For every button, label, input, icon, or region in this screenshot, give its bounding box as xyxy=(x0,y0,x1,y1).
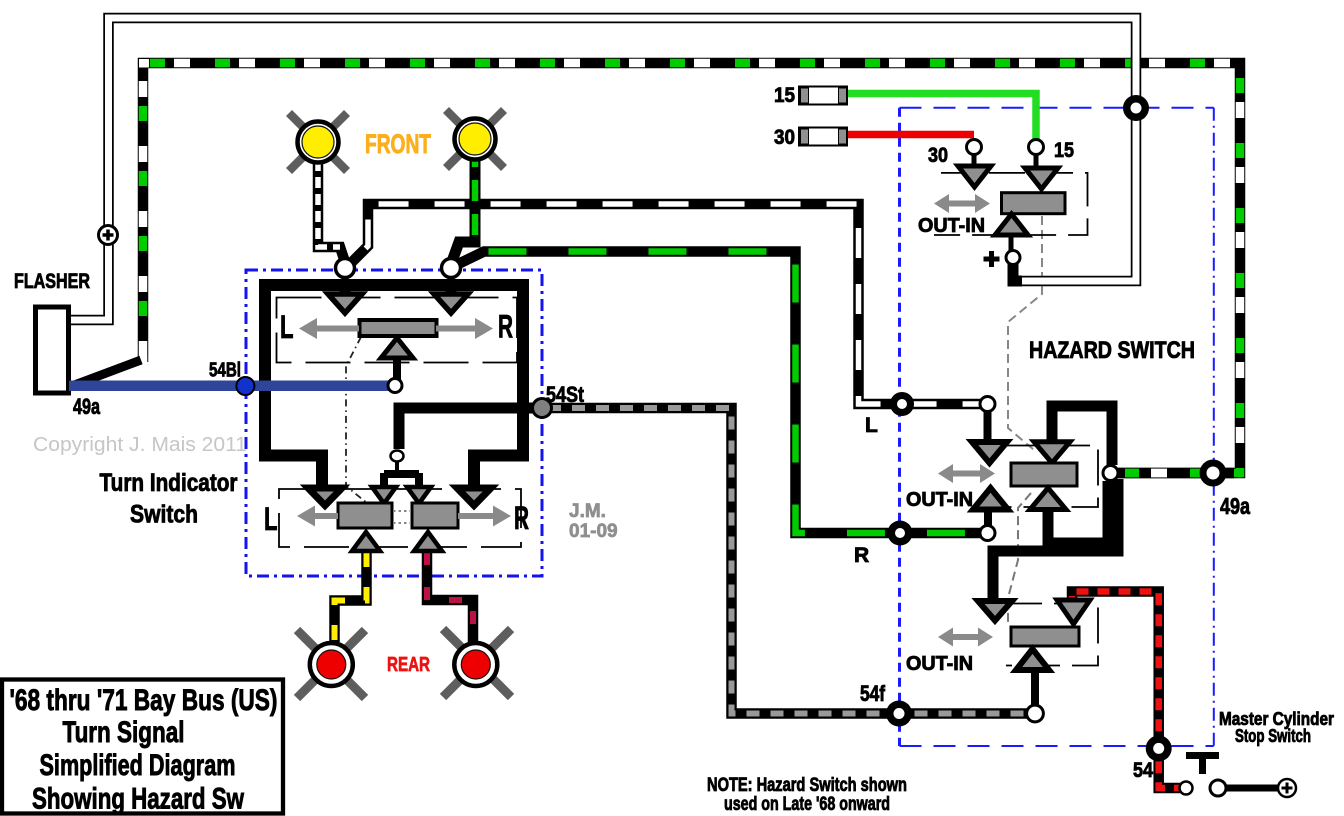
svg-text:Switch: Switch xyxy=(130,501,198,529)
svg-text:OUT-IN: OUT-IN xyxy=(906,653,973,675)
svg-text:R: R xyxy=(498,309,513,345)
svg-text:01-09: 01-09 xyxy=(569,521,618,542)
svg-text:Turn Indicator: Turn Indicator xyxy=(100,469,238,497)
svg-text:L: L xyxy=(264,501,278,537)
svg-text:Simplified Diagram: Simplified Diagram xyxy=(40,749,236,782)
svg-text:15: 15 xyxy=(774,84,795,107)
svg-text:30: 30 xyxy=(928,144,948,167)
svg-text:49a: 49a xyxy=(1220,493,1250,519)
svg-text:FRONT: FRONT xyxy=(365,129,431,159)
svg-text:Stop Switch: Stop Switch xyxy=(1235,726,1311,746)
svg-text:HAZARD SWITCH: HAZARD SWITCH xyxy=(1029,337,1195,364)
svg-text:used on Late '68 onward: used on Late '68 onward xyxy=(724,794,890,815)
svg-text:FLASHER: FLASHER xyxy=(14,270,90,293)
svg-text:NOTE: Hazard Switch shown: NOTE: Hazard Switch shown xyxy=(707,775,907,796)
svg-text:Showing Hazard Sw: Showing Hazard Sw xyxy=(32,783,244,816)
svg-text:49a: 49a xyxy=(73,394,101,419)
svg-text:'68 thru '71 Bay Bus (US): '68 thru '71 Bay Bus (US) xyxy=(10,684,278,717)
svg-text:54: 54 xyxy=(1133,759,1153,782)
svg-text:30: 30 xyxy=(774,126,795,149)
svg-text:REAR: REAR xyxy=(387,654,430,676)
svg-text:OUT-IN: OUT-IN xyxy=(906,489,973,511)
svg-text:54Bl: 54Bl xyxy=(209,360,241,382)
svg-text:R: R xyxy=(514,500,529,536)
svg-text:15: 15 xyxy=(1054,139,1074,162)
svg-text:54f: 54f xyxy=(860,681,886,706)
svg-text:J.M.: J.M. xyxy=(569,501,606,522)
svg-text:R: R xyxy=(854,544,869,567)
svg-text:L: L xyxy=(865,414,878,437)
svg-text:Turn Signal: Turn Signal xyxy=(63,716,185,749)
svg-text:L: L xyxy=(280,309,294,345)
svg-text:OUT-IN: OUT-IN xyxy=(918,215,985,237)
svg-text:Copyright J. Mais 2011: Copyright J. Mais 2011 xyxy=(33,434,247,456)
